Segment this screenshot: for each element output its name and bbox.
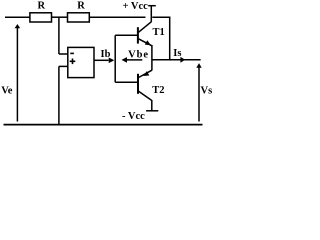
- svg-text:R: R: [38, 1, 46, 12]
- svg-text:R: R: [77, 1, 85, 12]
- svg-text:- Vcc: - Vcc: [122, 111, 145, 122]
- svg-text:T1: T1: [153, 27, 165, 38]
- svg-text:Ve: Ve: [1, 85, 13, 96]
- svg-text:+ Vcc: + Vcc: [123, 1, 149, 12]
- svg-text:Ib: Ib: [101, 49, 111, 60]
- svg-text:Is: Is: [173, 48, 181, 59]
- svg-text:Vbe: Vbe: [128, 49, 149, 60]
- svg-text:Vs: Vs: [201, 85, 213, 96]
- svg-text:T2: T2: [152, 85, 164, 96]
